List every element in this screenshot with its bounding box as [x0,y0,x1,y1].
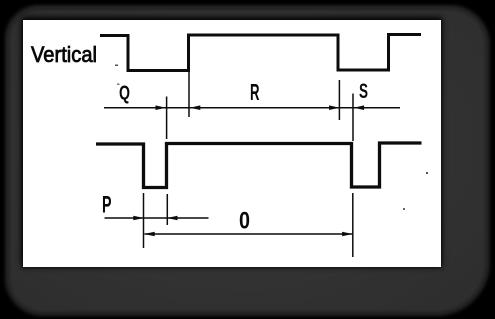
svg-text:Q: Q [119,83,130,105]
dimension line Q/R/S [104,107,400,109]
arrowhead P right [133,216,144,221]
svg-text:S: S [359,79,368,103]
extension line F (bottom pulse rise, down) [166,194,168,225]
arrowhead R left [190,105,201,110]
white scanned page [23,20,441,267]
extension line C (top waveform 2nd fall, down) [338,80,340,120]
arrowhead O right [342,232,353,237]
scan speck 2 [117,84,120,86]
svg-text:R: R [250,79,260,105]
top waveform (vertical sync signal) [100,35,421,71]
dimension line P [105,217,209,219]
extension line D (bottom 2nd pulse fall, up) [352,94,354,142]
arrowhead S left [354,105,365,110]
scan speck 3 [426,172,428,174]
arrowhead R right [329,105,340,110]
svg-text:0: 0 [239,208,250,235]
arrowhead P left [167,216,178,221]
extension line G (bottom 2nd pulse fall, down) [352,193,354,257]
dimension line O [145,233,353,235]
extension line E (bottom pulse fall, down) [143,193,145,248]
extension line A (bottom pulse rise, up) [166,97,168,140]
bottom waveform [96,143,422,188]
scan speck 4 [403,208,405,210]
extension line B (top waveform rise, down) [188,72,190,117]
arrowhead O left [144,232,155,237]
svg-text:Vertical: Vertical [31,42,97,67]
arrowhead Q right [156,105,167,110]
svg-text:P: P [102,192,112,219]
scan speck 1 [115,65,118,67]
